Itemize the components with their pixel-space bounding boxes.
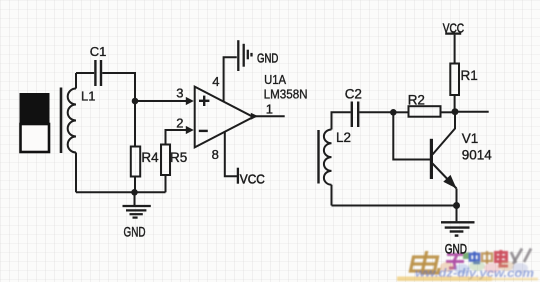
wire base vertical xyxy=(393,112,430,159)
svg-text:GND: GND xyxy=(257,50,278,65)
capacitor C2 xyxy=(352,102,358,128)
svg-text:3: 3 xyxy=(176,85,183,100)
wire VCC to R1 xyxy=(454,35,456,64)
resistor R2 xyxy=(409,106,441,117)
inductor L1 xyxy=(68,89,76,153)
resistor R1 xyxy=(450,64,459,96)
watermark underline bar xyxy=(397,277,492,282)
magnet symbol (black block) xyxy=(20,93,50,123)
svg-text:L2: L2 xyxy=(336,130,351,145)
node junction C2/R2/base xyxy=(390,109,397,116)
svg-text:C2: C2 xyxy=(345,86,362,101)
inductor L2 xyxy=(324,130,332,185)
wire bottom rail right xyxy=(332,205,457,207)
wire L2 bottom lead xyxy=(331,185,333,206)
wire ground stem xyxy=(134,192,136,205)
svg-text:R2: R2 xyxy=(408,92,425,107)
svg-text:LM358N: LM358N xyxy=(264,87,308,102)
wire C1 to right corner xyxy=(102,73,135,101)
wire output stub right xyxy=(455,111,489,113)
capacitor C1 xyxy=(95,60,101,86)
resistor R4 xyxy=(131,147,140,177)
wire node to R2 xyxy=(393,111,408,113)
wire R5 bottom lead xyxy=(165,175,167,192)
watermark glyph 4 xyxy=(470,252,480,264)
transistor V1 base bar xyxy=(430,139,433,179)
inductor L2 core xyxy=(317,130,319,184)
node junction emitter/ground xyxy=(453,202,460,209)
svg-text:GND: GND xyxy=(445,241,467,256)
wire pin 4 to gnd xyxy=(224,57,237,101)
resistor R5 xyxy=(161,145,170,176)
svg-text:VCC: VCC xyxy=(443,20,464,35)
wire bottom rail xyxy=(76,191,166,193)
watermark glyph 3 xyxy=(463,253,470,260)
transistor V1 collector xyxy=(433,114,456,155)
svg-text:C1: C1 xyxy=(90,44,107,59)
power VCC tick (op-amp) xyxy=(237,168,239,184)
svg-text:1: 1 xyxy=(266,102,273,117)
wire L1 bottom lead xyxy=(75,153,77,193)
svg-text:9014: 9014 xyxy=(462,148,493,163)
svg-text:R4: R4 xyxy=(141,150,159,165)
node junction R1/R2/collector xyxy=(452,108,459,115)
wire output pin 1 xyxy=(255,115,285,117)
watermark mid band blobs xyxy=(440,261,528,274)
svg-text:L1: L1 xyxy=(81,89,95,104)
wire emitter to bottom node xyxy=(456,189,458,206)
watermark glyph 7 xyxy=(511,249,531,265)
ground (top, rotated) xyxy=(238,40,251,71)
wire L2 top to C2 xyxy=(332,112,351,129)
svg-text:VCC: VCC xyxy=(240,171,265,186)
watermark glyph 2 xyxy=(446,255,464,269)
svg-text:2: 2 xyxy=(176,115,183,130)
svg-text:8: 8 xyxy=(212,147,219,162)
watermark glyph 6 xyxy=(495,250,508,266)
wire R4 bottom lead xyxy=(134,177,136,193)
wire R1 bottom lead xyxy=(454,95,456,111)
op-amp plus input mark xyxy=(199,96,210,131)
wire pin 8 to vcc xyxy=(225,131,237,176)
ground GND left xyxy=(123,206,151,218)
svg-text:4: 4 xyxy=(212,74,219,89)
watermark glyph 5 xyxy=(482,251,492,264)
inductor L1 core xyxy=(60,88,63,154)
watermark big glyph xyxy=(410,251,443,273)
wire pin 3 xyxy=(135,100,188,102)
wire right vertical to R4 xyxy=(134,101,136,147)
wire C2 to node xyxy=(359,111,393,113)
svg-text:R5: R5 xyxy=(170,150,187,165)
svg-text:GND: GND xyxy=(124,224,146,239)
op-amp U1A xyxy=(195,87,254,148)
ground GND right xyxy=(441,222,475,235)
wire R2 to collector node xyxy=(441,111,456,113)
op-amp minus input mark xyxy=(199,130,208,132)
watermark logo xyxy=(397,249,538,282)
wire ground stem right xyxy=(456,206,458,222)
svg-text:R1: R1 xyxy=(461,68,478,83)
node junction L1/C1/R4/pin3 xyxy=(132,98,139,105)
node junction bottom xyxy=(131,189,138,196)
svg-text:U1A: U1A xyxy=(264,72,286,87)
wire L1 top lead xyxy=(75,73,77,89)
transistor V1 emitter xyxy=(433,164,457,189)
magnet symbol (open block) xyxy=(21,124,50,152)
wire top left to C1 xyxy=(76,72,94,74)
svg-text:V1: V1 xyxy=(462,131,479,146)
wire R5 top to pin 2 xyxy=(166,130,188,145)
power VCC top xyxy=(445,32,461,34)
